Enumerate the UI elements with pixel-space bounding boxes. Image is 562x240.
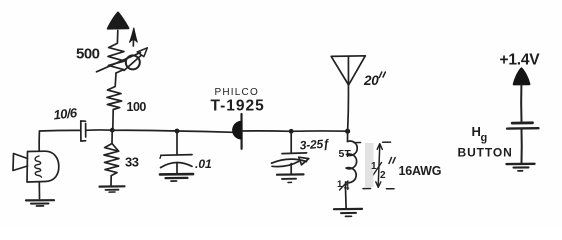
svg-text:16AWG: 16AWG xyxy=(399,164,442,178)
svg-text:1: 1 xyxy=(371,161,377,172)
svg-text:PHILCO: PHILCO xyxy=(215,87,259,98)
svg-text:10/6: 10/6 xyxy=(53,105,79,122)
svg-text:2: 2 xyxy=(380,170,386,181)
svg-text:5T: 5T xyxy=(339,148,352,160)
svg-text:33: 33 xyxy=(125,154,139,169)
svg-text:100: 100 xyxy=(127,100,147,114)
svg-text:.01: .01 xyxy=(195,157,212,171)
svg-text:T-1925: T-1925 xyxy=(211,98,265,115)
svg-text:+1.4V: +1.4V xyxy=(500,52,541,69)
svg-text:BUTTON: BUTTON xyxy=(458,146,513,160)
svg-text:g: g xyxy=(481,132,488,144)
svg-text:3-25ƒ: 3-25ƒ xyxy=(299,136,330,152)
svg-text:20: 20 xyxy=(363,73,379,88)
svg-text:1: 1 xyxy=(337,179,343,190)
svg-text:500: 500 xyxy=(76,46,100,63)
svg-text:4: 4 xyxy=(344,182,350,193)
svg-text:H: H xyxy=(472,124,481,139)
